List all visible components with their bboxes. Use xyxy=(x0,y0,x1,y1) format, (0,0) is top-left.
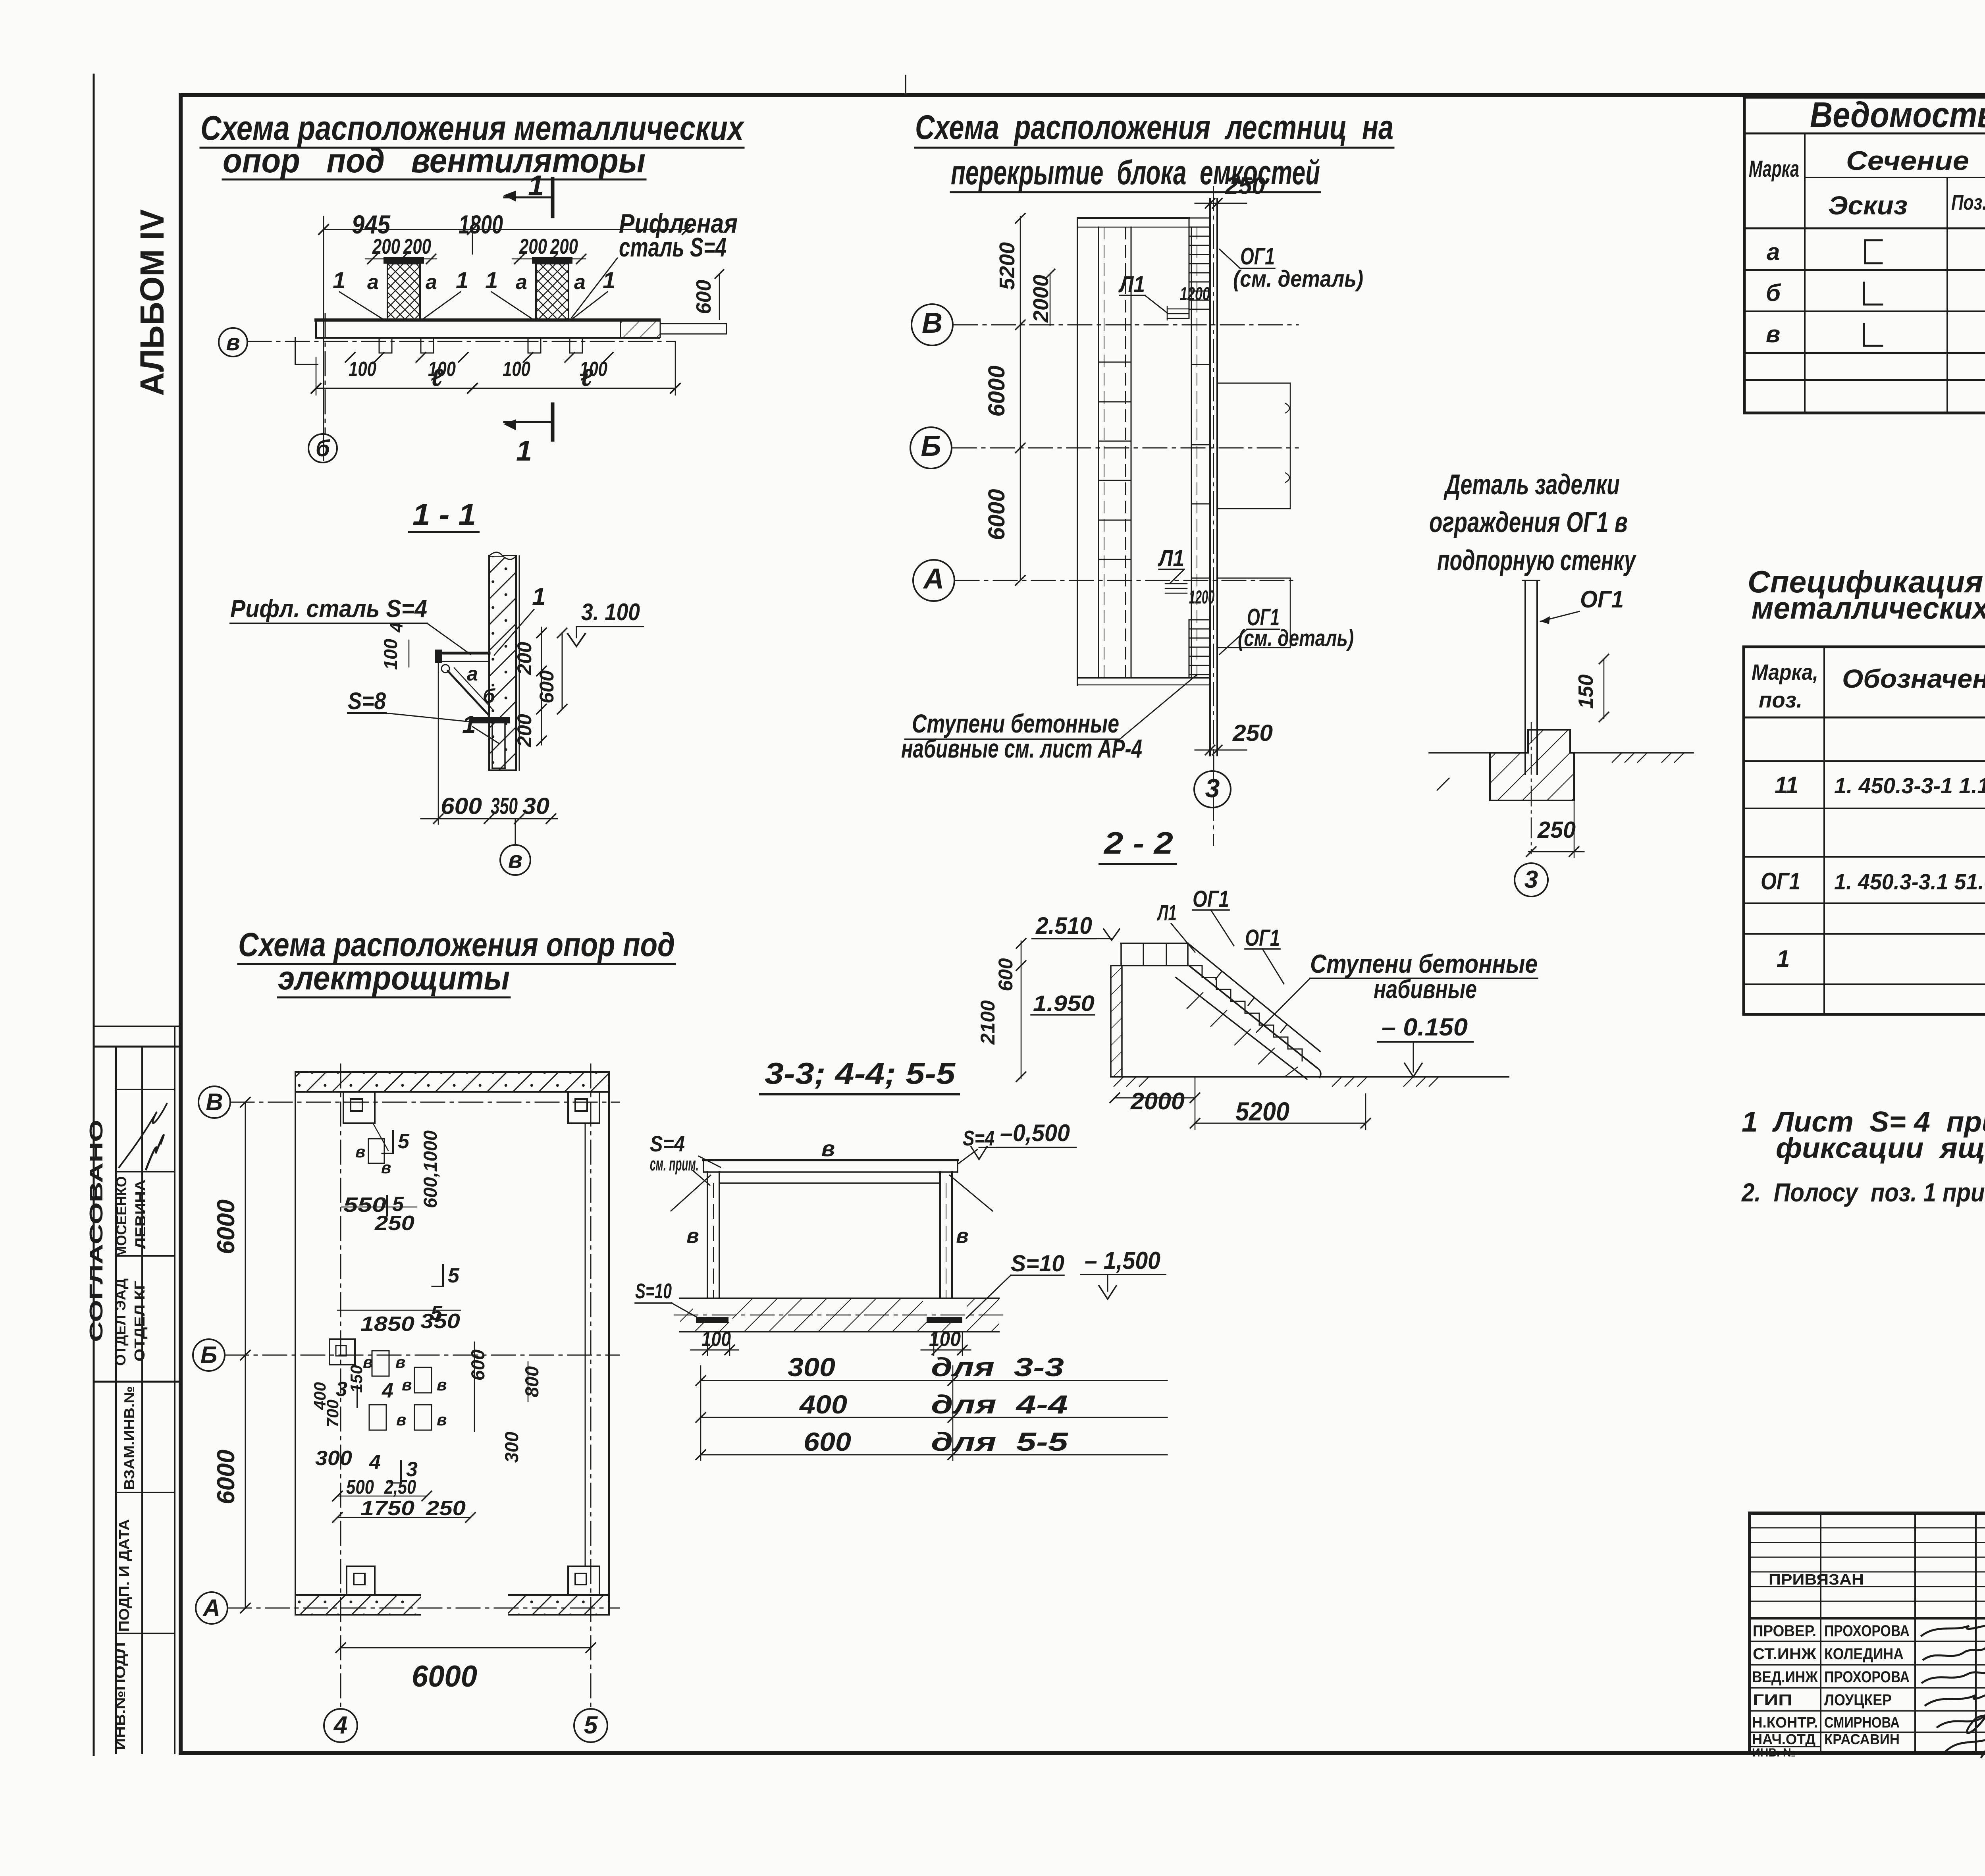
svg-text:в: в xyxy=(396,1410,406,1429)
svg-text:6000: 6000 xyxy=(984,489,1010,540)
svg-text:Л1: Л1 xyxy=(1118,272,1145,297)
svg-text:250: 250 xyxy=(1232,720,1273,746)
svg-text:в: в xyxy=(1766,321,1780,347)
svg-text:600: 600 xyxy=(467,1350,488,1380)
svg-text:250: 250 xyxy=(1537,817,1576,843)
svg-text:а: а xyxy=(426,271,437,294)
svg-text:300: 300 xyxy=(315,1447,352,1470)
svg-text:–0,500: –0,500 xyxy=(1000,1120,1070,1146)
svg-text:в: в xyxy=(821,1136,835,1161)
svg-text:В: В xyxy=(206,1089,223,1115)
svg-text:металлических площадок: металлических площадок xyxy=(1752,590,1985,625)
svg-text:S=4: S=4 xyxy=(963,1126,994,1150)
svg-text:Л1: Л1 xyxy=(1157,546,1184,571)
svg-text:3: 3 xyxy=(406,1458,418,1481)
svg-text:в: в xyxy=(402,1375,412,1394)
svg-text:ПОДП. И ДАТА: ПОДП. И ДАТА xyxy=(116,1519,132,1632)
svg-text:200: 200 xyxy=(372,235,400,258)
svg-text:4: 4 xyxy=(369,1451,381,1474)
svg-text:в: в xyxy=(956,1224,968,1247)
svg-text:сталь S=4: сталь S=4 xyxy=(619,232,727,262)
svg-text:фиксации ящиков.: фиксации ящиков. xyxy=(1776,1132,1985,1164)
svg-text:в: в xyxy=(437,1375,447,1394)
svg-text:400: 400 xyxy=(799,1390,847,1419)
svg-text:МОСЕЕНКО: МОСЕЕНКО xyxy=(113,1176,129,1258)
svg-text:1: 1 xyxy=(516,435,532,467)
svg-text:поз.: поз. xyxy=(1759,687,1802,712)
svg-text:250: 250 xyxy=(1225,172,1265,199)
svg-text:а: а xyxy=(516,271,527,294)
svg-text:Эскиз: Эскиз xyxy=(1828,191,1908,220)
svg-text:Б: Б xyxy=(200,1342,217,1368)
svg-text:для 5-5: для 5-5 xyxy=(931,1427,1069,1456)
svg-text:S=4: S=4 xyxy=(650,1131,685,1156)
svg-text:А: А xyxy=(202,1595,220,1621)
svg-text:800: 800 xyxy=(521,1366,542,1397)
svg-text:200: 200 xyxy=(550,235,578,258)
svg-text:ОГ1: ОГ1 xyxy=(1245,925,1280,951)
svg-text:Деталь заделки: Деталь заделки xyxy=(1443,469,1620,501)
svg-text:(см. деталь): (см. деталь) xyxy=(1233,266,1363,292)
svg-text:Б: Б xyxy=(921,430,941,462)
svg-text:б: б xyxy=(483,685,496,707)
svg-text:100: 100 xyxy=(503,358,530,381)
svg-text:150: 150 xyxy=(1575,675,1598,709)
svg-text:3: 3 xyxy=(1524,866,1538,893)
svg-text:300: 300 xyxy=(788,1352,835,1382)
svg-text:Рифл. сталь S=4: Рифл. сталь S=4 xyxy=(230,595,427,623)
svg-text:1: 1 xyxy=(1777,945,1790,972)
svg-text:600: 600 xyxy=(692,280,715,314)
svg-text:5200: 5200 xyxy=(995,242,1019,290)
svg-text:100: 100 xyxy=(929,1328,961,1351)
svg-text:1.950: 1.950 xyxy=(1033,991,1095,1016)
svg-text:Марка,: Марка, xyxy=(1752,659,1818,684)
svg-text:набивные см. лист АР-4: набивные см. лист АР-4 xyxy=(901,734,1142,763)
svg-text:ПРОВЕР.: ПРОВЕР. xyxy=(1753,1622,1816,1640)
svg-text:Поз.: Поз. xyxy=(1951,191,1985,214)
svg-text:3: 3 xyxy=(336,1378,347,1401)
svg-text:в: в xyxy=(437,1410,447,1429)
svg-text:350: 350 xyxy=(491,793,518,819)
svg-text:ограждения ОГ1 в: ограждения ОГ1 в xyxy=(1429,507,1628,538)
svg-text:600: 600 xyxy=(441,793,482,819)
svg-text:Схема расположения лестниц: Схема расположения лестниц на xyxy=(915,108,1393,147)
svg-text:1: 1 xyxy=(603,268,615,293)
svg-text:СТ.ИНЖ: СТ.ИНЖ xyxy=(1753,1645,1817,1663)
svg-text:1200: 1200 xyxy=(1189,586,1214,607)
svg-text:а: а xyxy=(574,271,586,294)
svg-text:б: б xyxy=(316,436,331,461)
svg-text:200: 200 xyxy=(513,714,536,748)
svg-text:1800: 1800 xyxy=(459,210,503,239)
svg-text:ПРОХОРОВА: ПРОХОРОВА xyxy=(1824,1668,1910,1686)
svg-text:Ступени бетонные: Ступени бетонные xyxy=(1310,949,1538,978)
svg-text:для 3-3: для 3-3 xyxy=(931,1352,1064,1382)
svg-text:б: б xyxy=(1766,280,1781,306)
svg-text:3. 100: 3. 100 xyxy=(581,599,640,625)
svg-text:для 4-4: для 4-4 xyxy=(931,1390,1068,1419)
svg-text:электрощиты: электрощиты xyxy=(278,959,510,997)
svg-text:в: в xyxy=(381,1158,391,1177)
svg-text:30: 30 xyxy=(522,793,549,819)
svg-text:2.510: 2.510 xyxy=(1035,912,1092,939)
svg-text:4: 4 xyxy=(382,1379,393,1402)
svg-text:А: А xyxy=(923,563,944,595)
svg-text:ВЕД.ИНЖ: ВЕД.ИНЖ xyxy=(1752,1668,1818,1686)
svg-text:1 - 1: 1 - 1 xyxy=(412,498,476,532)
svg-text:1. 450.3-3.1 51.0.1.0 -01: 1. 450.3-3.1 51.0.1.0 -01 xyxy=(1834,869,1985,894)
svg-text:250: 250 xyxy=(374,1212,414,1235)
svg-text:6000: 6000 xyxy=(412,1660,477,1693)
svg-text:1: 1 xyxy=(528,170,544,202)
svg-text:1. 450.3-3-1 1.1.4.2.1: 1. 450.3-3-1 1.1.4.2.1 xyxy=(1834,773,1985,798)
svg-text:1: 1 xyxy=(532,583,545,611)
svg-text:Ведомость элементов: Ведомость элементов xyxy=(1810,95,1985,135)
svg-text:600: 600 xyxy=(994,958,1017,991)
svg-text:набивные: набивные xyxy=(1374,974,1477,1004)
svg-text:в: в xyxy=(686,1224,699,1247)
svg-text:Сечение: Сечение xyxy=(1846,146,1969,176)
svg-text:1: 1 xyxy=(485,268,498,293)
svg-text:6000: 6000 xyxy=(984,365,1010,416)
svg-text:Н.КОНТР.: Н.КОНТР. xyxy=(1752,1714,1818,1731)
svg-text:ИНВ. №: ИНВ. № xyxy=(1752,1746,1796,1759)
svg-text:ОТДЕЛ КГ: ОТДЕЛ КГ xyxy=(131,1280,148,1361)
svg-text:Обозначение: Обозначение xyxy=(1842,664,1985,693)
svg-text:2. Полосу поз. 1 пристрелить: 2. Полосу поз. 1 пристрелить дюбелями к … xyxy=(1741,1178,1985,1207)
svg-text:ОГ1: ОГ1 xyxy=(1580,586,1624,613)
svg-text:см. прим.: см. прим. xyxy=(650,1153,699,1174)
svg-text:3: 3 xyxy=(1205,773,1220,803)
svg-text:6000: 6000 xyxy=(212,1199,240,1254)
svg-text:Л1: Л1 xyxy=(1156,900,1177,925)
svg-text:5: 5 xyxy=(584,1712,598,1739)
svg-text:Схема расположения опор под: Схема расположения опор под xyxy=(238,926,675,963)
svg-text:150: 150 xyxy=(347,1365,366,1393)
svg-text:200: 200 xyxy=(403,235,431,258)
svg-text:ОТДЕЛ ЭАД: ОТДЕЛ ЭАД xyxy=(112,1278,129,1366)
svg-text:100: 100 xyxy=(349,358,376,381)
svg-text:ИНВ.№ПОДЛ: ИНВ.№ПОДЛ xyxy=(112,1642,128,1750)
svg-text:ГИП: ГИП xyxy=(1753,1691,1792,1709)
svg-text:250: 250 xyxy=(426,1497,466,1520)
svg-text:600,1000: 600,1000 xyxy=(420,1130,441,1208)
svg-text:2000: 2000 xyxy=(1029,275,1053,323)
svg-text:ЛОУЦКЕР: ЛОУЦКЕР xyxy=(1824,1691,1892,1709)
svg-text:4: 4 xyxy=(333,1712,347,1739)
svg-text:600: 600 xyxy=(804,1427,851,1456)
svg-text:200: 200 xyxy=(513,642,536,675)
svg-text:6000: 6000 xyxy=(212,1450,240,1504)
svg-text:ℓ: ℓ xyxy=(580,364,594,391)
svg-text:5: 5 xyxy=(398,1130,410,1153)
svg-text:1: 1 xyxy=(462,711,476,738)
svg-text:2100: 2100 xyxy=(977,1000,999,1045)
svg-text:– 0.150: – 0.150 xyxy=(1382,1014,1468,1041)
svg-text:700: 700 xyxy=(323,1400,342,1427)
svg-text:СМИРНОВА: СМИРНОВА xyxy=(1824,1714,1900,1731)
svg-text:подпорную стенку: подпорную стенку xyxy=(1437,545,1637,576)
svg-text:5200: 5200 xyxy=(1235,1097,1289,1126)
svg-text:1: 1 xyxy=(333,268,345,293)
svg-text:(см. деталь): (см. деталь) xyxy=(1238,625,1354,651)
svg-text:1750: 1750 xyxy=(360,1497,414,1520)
svg-text:ℓ: ℓ xyxy=(431,364,444,391)
svg-text:100: 100 xyxy=(380,639,401,670)
svg-text:ОГ1: ОГ1 xyxy=(1761,868,1800,895)
svg-text:11: 11 xyxy=(1775,772,1798,798)
svg-text:ОГ1: ОГ1 xyxy=(1240,243,1275,270)
svg-text:в: в xyxy=(395,1353,405,1371)
svg-text:ЛЕВИНА: ЛЕВИНА xyxy=(132,1179,148,1249)
svg-text:ОГ1: ОГ1 xyxy=(1193,886,1229,912)
svg-text:– 1,500: – 1,500 xyxy=(1085,1247,1160,1274)
svg-text:а: а xyxy=(467,663,478,685)
svg-text:НАЧ.ОТД: НАЧ.ОТД xyxy=(1752,1731,1815,1747)
svg-text:а: а xyxy=(1767,239,1780,265)
svg-text:В: В xyxy=(922,307,942,339)
svg-text:ВЗАМ.ИНВ.№: ВЗАМ.ИНВ.№ xyxy=(121,1386,137,1490)
svg-text:в: в xyxy=(226,330,240,355)
svg-text:1850: 1850 xyxy=(360,1313,414,1336)
svg-text:200: 200 xyxy=(519,235,547,258)
svg-text:5: 5 xyxy=(431,1302,443,1325)
svg-text:в: в xyxy=(355,1142,365,1161)
svg-text:300: 300 xyxy=(501,1432,522,1463)
svg-text:S=8: S=8 xyxy=(348,688,386,714)
svg-text:1200: 1200 xyxy=(1180,283,1210,304)
svg-text:3-3; 4-4; 5-5: 3-3; 4-4; 5-5 xyxy=(765,1057,956,1091)
svg-text:2000: 2000 xyxy=(1130,1088,1185,1114)
svg-text:в: в xyxy=(508,846,522,873)
svg-text:S=10: S=10 xyxy=(635,1279,672,1303)
svg-text:а: а xyxy=(367,271,379,294)
svg-text:4: 4 xyxy=(386,622,407,632)
svg-text:ПРОХОРОВА: ПРОХОРОВА xyxy=(1824,1622,1910,1640)
svg-text:Марка: Марка xyxy=(1749,156,1799,182)
svg-text:КОЛЕДИНА: КОЛЕДИНА xyxy=(1824,1645,1904,1663)
svg-text:АЛЬБОМ IV: АЛЬБОМ IV xyxy=(133,209,171,396)
svg-text:S=10: S=10 xyxy=(1011,1251,1064,1276)
svg-text:ПРИВЯЗАН: ПРИВЯЗАН xyxy=(1769,1571,1864,1588)
svg-text:СОГЛАСОВАНО: СОГЛАСОВАНО xyxy=(86,1120,106,1342)
svg-text:опор под вентиляторы: опор под вентиляторы xyxy=(223,142,646,180)
svg-text:5: 5 xyxy=(448,1264,460,1287)
svg-text:100: 100 xyxy=(701,1328,731,1351)
svg-text:2 - 2: 2 - 2 xyxy=(1103,825,1173,860)
svg-text:500: 500 xyxy=(346,1476,374,1498)
svg-text:600: 600 xyxy=(536,670,558,704)
svg-text:КРАСАВИН: КРАСАВИН xyxy=(1824,1731,1900,1747)
svg-text:1: 1 xyxy=(456,268,468,293)
